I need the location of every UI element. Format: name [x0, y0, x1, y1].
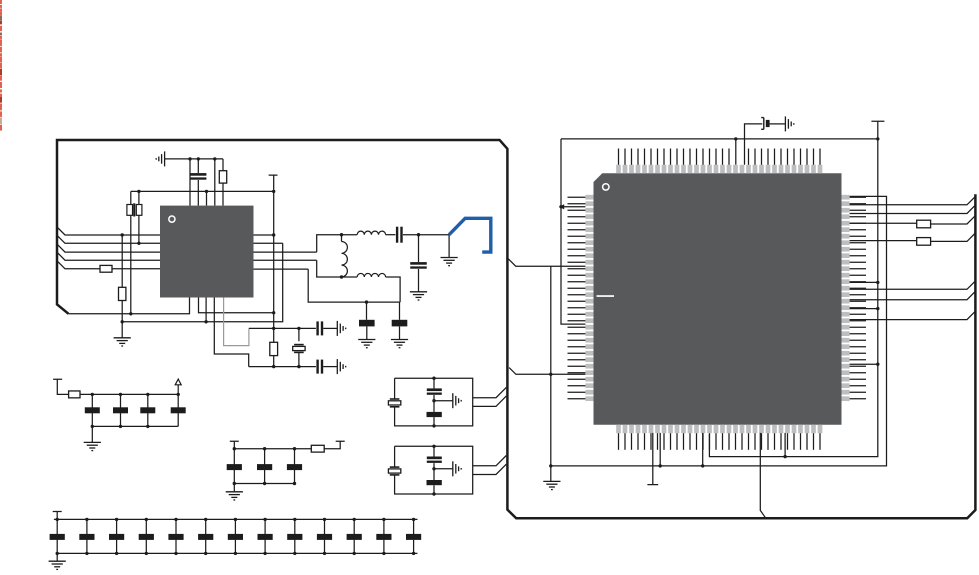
wire row1 right [254, 234, 274, 236]
capacitor C29 [427, 412, 442, 417]
wire osc1 out A [473, 387, 507, 397]
resistor R4 lead top [273, 235, 275, 342]
wire U1 bottom pin6 to osc rail1 (bus) [224, 298, 249, 346]
U2 pin-1 marker [603, 184, 609, 190]
node wire2-T [272, 190, 275, 193]
wire right pin tie 282.4 [850, 281, 878, 283]
ground below R3 [114, 338, 131, 346]
capacitor C12 lead [233, 449, 235, 484]
inductor L2 [357, 231, 385, 235]
node osc1 top [432, 377, 435, 380]
wire row1 from border to U1 [57, 227, 160, 235]
node bottom gnd2 [701, 464, 704, 467]
capacitor C10 [140, 407, 155, 413]
node inner net 282.4 [876, 281, 879, 284]
node balun bottom-left [340, 275, 343, 278]
capacitor C11 lead [177, 394, 179, 426]
wire right net 3 [850, 240, 917, 242]
wire mid vertical [550, 266, 552, 466]
node VDD-cap [734, 137, 737, 140]
wire net left frame [561, 139, 585, 324]
node rail2-R4 [272, 365, 275, 368]
wire row2 from border to U1 [57, 235, 160, 243]
node bank1 top 0 [91, 393, 94, 396]
node rail1-R4 [272, 327, 275, 330]
wire C4 to antenna node [403, 234, 449, 236]
node mid vert top [549, 373, 552, 376]
node bank2 bot 2 [293, 482, 296, 485]
node osc2 bottom [432, 492, 435, 495]
wire AVDD rail above U1 [165, 158, 223, 160]
capacitor C28 top lead [433, 378, 435, 388]
capacitor C2 plates [316, 321, 318, 335]
U2 left pins [568, 195, 594, 401]
node bottom gnd1 [659, 464, 662, 467]
capacitor C7 bottom lead [399, 326, 401, 339]
capacitor C1 [190, 173, 206, 176]
wire module-edge net [69, 298, 190, 314]
capacitor C3 plates [316, 360, 318, 374]
wire VDD top net [561, 138, 877, 140]
capacitor C5 [410, 262, 427, 265]
capacitor C7 top lead [399, 302, 401, 320]
capacitor C8 lead [91, 394, 93, 426]
node bank1 top 3 [177, 393, 180, 396]
ground bank2 [226, 492, 243, 500]
capacitor C1 bottom lead [197, 180, 199, 206]
wire row3 from border to U1 [57, 244, 160, 252]
capacitor C7 [392, 320, 408, 327]
wire U1 top pin4 drop [214, 159, 216, 206]
power stub T left bank [53, 379, 69, 394]
capacitor C29 lead [433, 417, 435, 426]
capacitor C4 plates [396, 227, 398, 243]
resistor R9 [917, 220, 931, 228]
ground below C7 [391, 340, 408, 348]
wire rail2 to gnd [323, 366, 337, 368]
node bank2 top 2 [293, 447, 296, 450]
inductor L1 (vertical) [342, 242, 348, 277]
capacitor C6 top lead [366, 302, 368, 320]
wire left bank bottom rail [92, 425, 178, 427]
resonator Y1 [294, 344, 304, 346]
capacitor C8 [85, 407, 100, 413]
resonator Y1 bottom lead [298, 352, 300, 366]
resistor R5 [69, 391, 80, 398]
node osc1 mid [432, 399, 435, 402]
wire bottom bank top rail [54, 518, 418, 520]
wire bank2 gnd stem [233, 484, 235, 492]
power stub T bottom bank [53, 512, 62, 520]
wire row4 step-down to balun [317, 260, 358, 277]
wire mid bank top rail [234, 448, 311, 450]
oscillator loop 2 with crystal Y3 [395, 446, 473, 494]
capacitor C14 [287, 464, 302, 470]
wire GND net lineB [122, 243, 283, 321]
wire row5 from border [57, 261, 100, 269]
wire row2 right [254, 242, 283, 244]
wire osc1 mid to gnd [434, 400, 453, 402]
wire rail1 to gnd [323, 327, 337, 329]
ground bank1 [84, 442, 101, 450]
node osc2 top [432, 445, 435, 448]
node bank1 bot 0 [91, 425, 94, 428]
capacitor C6 [359, 320, 375, 327]
node row2-X1 [137, 242, 140, 245]
wire bottom pin T-end [647, 433, 658, 485]
capacitor C14 lead [294, 449, 296, 484]
T-stub top right [871, 121, 884, 139]
wire osc2 out A [473, 456, 507, 466]
wire osc2 mid to gnd [434, 468, 453, 470]
wire right net 1 [850, 205, 976, 213]
capacitor C30 [427, 457, 442, 463]
node osc2 mid [432, 467, 435, 470]
ground at antenna [441, 258, 458, 266]
wire row3 step-up to balun [317, 235, 358, 252]
wire row5 to U1 [112, 268, 160, 270]
ground (rotated left) above U1 [156, 151, 164, 166]
capacitor C1 top lead [197, 159, 199, 173]
module boundary outline (left RF section) [57, 140, 975, 518]
wire right net 5 [850, 291, 976, 299]
resistor R4 lead bottom [273, 356, 275, 367]
resistor R1 bottom lead [222, 183, 224, 206]
capacitor bank C15-C27 (13 bypass caps) [56, 519, 58, 553]
U2 white tick [597, 295, 615, 297]
wire right pin tie 308.6 [850, 308, 878, 310]
oscillator loop 1 with crystal Y2 [395, 378, 473, 426]
resistor R6 [311, 445, 324, 452]
capacitor C9 lead [120, 394, 122, 426]
node osc1 bottom [432, 424, 435, 427]
wire right net 0 [850, 196, 976, 204]
capacitor C5 top lead [418, 235, 420, 262]
ground below C5 [410, 292, 427, 300]
wire osc rail2 [249, 366, 316, 368]
capacitor C6 bottom lead [366, 326, 368, 339]
crystal X1 [127, 205, 133, 216]
wire row5 to shunt net [308, 269, 400, 302]
capacitor C12 [227, 464, 242, 470]
node lineB pin [204, 320, 207, 323]
node R3-gnd net [121, 320, 124, 323]
node bank1 top 1 [119, 393, 122, 396]
node bank2 top 1 [263, 447, 266, 450]
wire inner net vertical [709, 139, 877, 457]
node left frame pin [559, 205, 562, 208]
ground bank3 [49, 561, 66, 569]
capacitor C31 [427, 480, 442, 485]
wire bottom pin gnd1 [659, 433, 661, 466]
page edge red watermark text [0, 0, 2, 131]
wire left bank top rail [80, 393, 178, 395]
wire top cap net [736, 124, 763, 165]
node rail1-Y1 [297, 327, 300, 330]
wire U1 top pin3 drop [206, 191, 208, 205]
capacitor C28 bottom lead [433, 395, 435, 412]
wire bottom bank bottom rail [57, 552, 417, 554]
node rail-pin4 [213, 157, 216, 160]
wire antenna gnd lead [448, 235, 450, 258]
antenna (blue) [449, 218, 491, 252]
node bank1 bot 1 [119, 425, 122, 428]
crystal X1 left lead [130, 191, 132, 313]
op-chip U2 (microcontroller) [594, 173, 842, 425]
node shunt net C6 [365, 300, 368, 303]
wire bottom pin exit [760, 433, 766, 518]
node gnd net corner [549, 464, 552, 467]
supply arrow [177, 385, 179, 395]
wire edge to pin row 374 [509, 368, 585, 375]
wire gnd stem right [550, 466, 552, 482]
arrow net tie [559, 204, 564, 209]
ground rail1 (rotated right) [337, 321, 345, 336]
wire osc rail1 [249, 327, 316, 329]
crystal X1 right lead [138, 191, 140, 243]
U2 bottom pins [616, 425, 822, 450]
capacitor C11 [171, 407, 186, 413]
wire U1 bottom pin2 net [199, 298, 274, 313]
node bank2 bot 0 [233, 482, 236, 485]
wire from module edge to pin row [508, 259, 585, 266]
op-chip U1 (RF transceiver) [160, 206, 254, 298]
wire pin to left frame [561, 206, 585, 208]
ground osc1 (rotated right) [453, 393, 461, 408]
ground below C6 [358, 340, 375, 348]
wire bottom pin inner2 [784, 433, 786, 457]
capacitor C9 [113, 407, 128, 413]
node bank2 top 0 [233, 447, 236, 450]
node edge net - X1 [129, 312, 132, 315]
node inner net 308.6 [876, 307, 879, 310]
wire right net 2 [850, 222, 917, 224]
U2 top pins [616, 149, 822, 174]
capacitor C31 lead [433, 485, 435, 494]
wire U1 top pin1 drop [189, 159, 191, 206]
capacitor C13 [257, 464, 272, 470]
resonator Y1 top lead [298, 328, 300, 341]
resistor R3 [119, 287, 126, 300]
wire U1 bottom pin5 to osc rail2 [214, 298, 248, 367]
wire right net 6 [850, 311, 976, 319]
wire VREG net [131, 190, 274, 192]
U2 right pins [842, 195, 867, 401]
resistor R4 [270, 342, 278, 355]
U1 pin-1 marker [169, 216, 175, 222]
node rail-C1 [197, 157, 200, 160]
wire U1 bottom pin3 drop [205, 298, 207, 322]
wire row5 right [254, 268, 309, 270]
wire R3 column [121, 235, 123, 287]
capacitor C13 lead [264, 449, 266, 484]
wire row3 right [254, 251, 317, 253]
T-stub net tie [269, 175, 278, 235]
ground top right (rotated right) [785, 116, 793, 131]
wire right pin tie 364.2 [850, 363, 878, 365]
wire right net 4 [850, 281, 976, 289]
node bank1 top 2 [146, 393, 149, 396]
node antenna shunt [417, 233, 420, 236]
node bank1 bot 2 [146, 425, 149, 428]
wire osc2 out B [473, 464, 507, 474]
ground rail2 (rotated right) [337, 359, 345, 374]
node wire2-pin3 [205, 190, 208, 193]
ground osc2 (rotated right) [453, 461, 461, 476]
wire mid bank bottom rail [234, 483, 294, 485]
capacitor C30 bottom lead [433, 463, 435, 480]
wire mid bank rail to T [324, 441, 345, 448]
power stub T mid bank left [230, 441, 239, 448]
node VDD-T [876, 137, 879, 140]
wire row4 from border to U1 [57, 252, 160, 260]
wire row4 right [254, 259, 317, 261]
wire bank1 gnd stem [91, 426, 93, 442]
wire bank3 gnd stem [56, 553, 58, 561]
capacitor C10 lead [147, 394, 149, 426]
node inner net 364.2 [876, 363, 879, 366]
wire L1 top stub [341, 235, 343, 242]
wire outer gnd net [551, 196, 887, 466]
wire osc1 out B [473, 396, 507, 406]
wire cap to gnd [770, 123, 786, 125]
capacitor C5 bottom lead [418, 269, 420, 292]
node X1 right lead top [137, 190, 140, 193]
node row1-R3col [121, 233, 124, 236]
wire bottom pin gnd2 [702, 433, 704, 466]
wire right net 3b [931, 233, 976, 241]
wire R3 to gnd node [121, 301, 123, 338]
wire L2 to C4 [386, 234, 396, 236]
wire L3 out [386, 277, 401, 302]
resistor R2 [100, 265, 112, 272]
node bank2 bot 1 [263, 482, 266, 485]
node lineA junction [272, 311, 275, 314]
resistor R1 [219, 171, 226, 183]
ground right section [543, 481, 560, 489]
inductor L3 [357, 273, 385, 277]
node row1 end [272, 233, 275, 236]
resistor R1 top lead [222, 159, 224, 171]
resistor R10 [917, 238, 931, 246]
node bottom inner2 [783, 455, 786, 458]
capacitor C28 [427, 388, 442, 394]
node rail2-Y1 [297, 365, 300, 368]
node rail-pin1 [188, 157, 191, 160]
capacitor C32 (polarized) [761, 118, 764, 130]
capacitor C30 top lead [433, 446, 435, 456]
node balun top-left [340, 233, 343, 236]
wire right net 2b [931, 216, 976, 224]
